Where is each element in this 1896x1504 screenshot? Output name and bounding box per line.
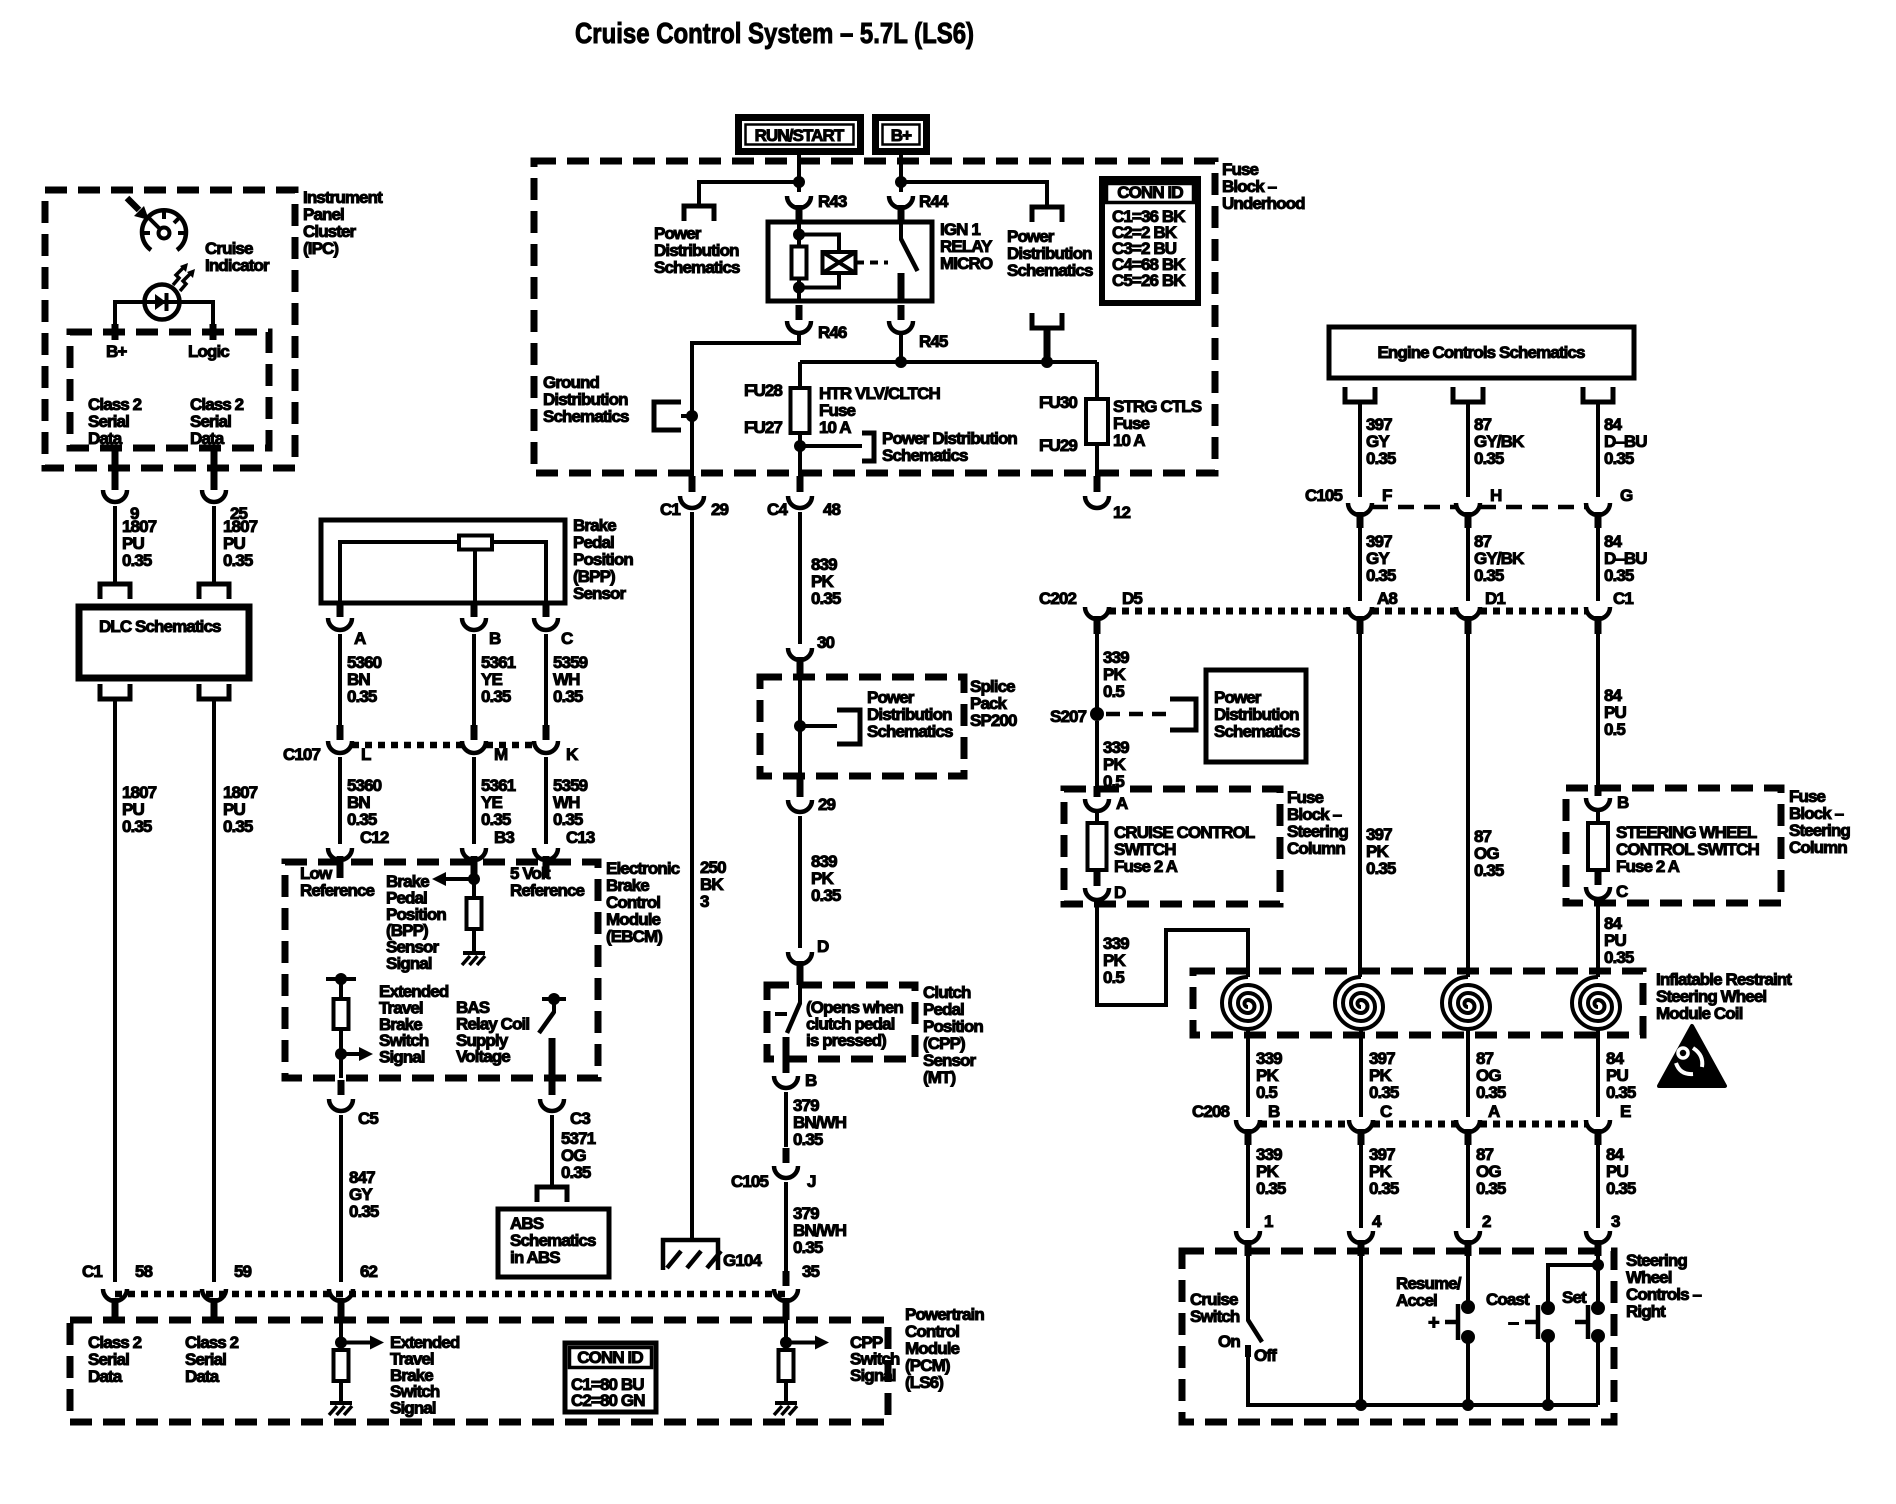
fuse FU30 STRG CTLS — [1086, 399, 1108, 444]
svg-text:0.35: 0.35 — [122, 817, 152, 836]
EBCM terminal BAS relay — [542, 997, 566, 1001]
ground G104 — [663, 1240, 721, 1270]
page ref power distribution right upper — [1032, 207, 1062, 222]
svg-text:C105: C105 — [731, 1172, 768, 1191]
connector BPP C — [534, 618, 573, 648]
wire label 84 DBU mid — [1604, 532, 1647, 585]
connector C1 29 — [680, 496, 704, 508]
BPP internal right — [492, 542, 546, 603]
wire label 397 PK c — [1369, 1145, 1399, 1198]
svg-text:Schematics: Schematics — [543, 407, 629, 426]
stub 35 into PCM — [783, 1298, 790, 1320]
stub power distribution feed — [1044, 328, 1051, 362]
junction extended travel signal — [335, 1048, 347, 1060]
junction extended travel pcm — [335, 1337, 347, 1349]
wire label 339 PK 05 mid — [1103, 738, 1129, 791]
svg-text:0.35: 0.35 — [811, 589, 841, 608]
wire pin1 to cruise switch — [1246, 1256, 1250, 1321]
BAS switch blade — [539, 1012, 554, 1033]
fuse block underhood box — [534, 161, 1215, 473]
stub A cruise fuse — [1094, 786, 1101, 797]
svg-text:35: 35 — [802, 1262, 820, 1281]
svg-text:2: 2 — [1482, 1212, 1491, 1231]
svg-text:Data: Data — [190, 429, 225, 448]
gauge pointer arrow — [127, 198, 149, 220]
connector CPP D — [788, 937, 829, 964]
wire 9 to DLC — [113, 506, 117, 584]
svg-text:0.35: 0.35 — [1366, 859, 1396, 878]
fuse block underhood label — [1222, 160, 1305, 213]
wire label 5359 WH upper — [553, 653, 588, 706]
connector line C105 row — [1372, 505, 1586, 510]
terminal from DLC left — [100, 684, 130, 699]
PCM resistor CPP — [779, 1350, 794, 1381]
relay switch upper stub — [899, 222, 903, 240]
stub BPP A — [337, 603, 344, 617]
svg-text:MICRO: MICRO — [940, 254, 993, 273]
gauge icon — [142, 210, 186, 250]
svg-text:is pressed): is pressed) — [806, 1031, 886, 1050]
wire BPP C to C107 — [544, 634, 548, 728]
svg-text:48: 48 — [823, 500, 841, 519]
PCM box — [70, 1320, 888, 1422]
svg-text:C5: C5 — [358, 1109, 378, 1128]
wire label 397 GY mid — [1366, 532, 1396, 585]
page ref power distribution fu27 — [862, 433, 874, 461]
PCM resistor extended travel — [334, 1350, 349, 1381]
svg-text:R43: R43 — [818, 192, 847, 211]
wire BAS stem — [552, 999, 556, 1013]
inflatable restraint coil box — [1193, 971, 1643, 1035]
svg-text:FU29: FU29 — [1039, 436, 1077, 455]
low reference label — [300, 864, 375, 900]
relay label IGN 1 RELAY MICRO — [940, 220, 993, 273]
stub C12 into EBCM — [337, 856, 344, 878]
wire label 839 PK upper — [811, 555, 841, 608]
connector C202 D1 — [1456, 589, 1505, 619]
stub G below — [1595, 512, 1602, 528]
svg-text:Signal: Signal — [850, 1366, 896, 1385]
wire pin3 down — [1596, 1256, 1600, 1302]
svg-text:D: D — [1114, 883, 1126, 902]
svg-text:Underhood: Underhood — [1222, 194, 1305, 213]
wire RUN/START to R43 — [797, 155, 801, 192]
svg-text:3: 3 — [700, 892, 709, 911]
stub 59 into PCM — [211, 1298, 218, 1320]
page ref ground distribution — [654, 402, 681, 430]
svg-text:0.35: 0.35 — [1604, 566, 1634, 585]
svg-text:Data: Data — [88, 429, 123, 448]
svg-text:59: 59 — [234, 1262, 252, 1281]
terminal engine controls H — [1453, 387, 1483, 402]
wire resume to bus — [1466, 1343, 1470, 1405]
svg-text:Right: Right — [1626, 1302, 1666, 1321]
svg-text:H: H — [1490, 486, 1502, 505]
connector 58 — [103, 1289, 127, 1301]
svg-text:0.35: 0.35 — [347, 687, 377, 706]
wire coil1 to C208 — [1246, 1029, 1250, 1117]
wire to PCM ground right — [784, 1381, 788, 1403]
CPP switch contact tick — [775, 1012, 787, 1016]
CPP wire in — [798, 985, 802, 1004]
svg-text:0.35: 0.35 — [1474, 861, 1504, 880]
connector C208 C — [1349, 1102, 1392, 1132]
svg-text:Reference: Reference — [300, 881, 375, 900]
coil 2 — [1335, 977, 1383, 1029]
connector steering fuse B — [1586, 793, 1629, 812]
ABS schematics label — [510, 1214, 596, 1267]
wire branch to power distribution ref left — [699, 182, 799, 204]
LED light arrows — [173, 263, 195, 291]
svg-text:D1: D1 — [1485, 589, 1505, 608]
junction FU27 branch — [794, 440, 806, 452]
cruise control switch fuse label — [1114, 823, 1255, 876]
stub D5 below — [1094, 616, 1101, 634]
connector C105 H — [1456, 486, 1502, 515]
svg-text:0.35: 0.35 — [1369, 1083, 1399, 1102]
relay node bottom — [793, 282, 805, 294]
wire 839 PK upper — [798, 512, 802, 644]
svg-text:F: F — [1382, 486, 1392, 505]
wire coast to bus — [1546, 1342, 1550, 1405]
svg-text:A: A — [1116, 794, 1128, 813]
junction bus coast — [1542, 1399, 1554, 1411]
wire L to C12 — [338, 757, 342, 844]
svg-text:C2=80 GN: C2=80 GN — [571, 1391, 645, 1410]
wire B to fuse — [1596, 812, 1600, 824]
terminal engine controls F — [1345, 387, 1375, 402]
wire B to pin1 — [1246, 1145, 1250, 1228]
relay coil left wire lower — [797, 278, 801, 301]
svg-text:C105: C105 — [1305, 486, 1342, 505]
stub B+ pin — [112, 324, 119, 340]
connector 25 — [202, 490, 248, 523]
svg-text:Switch: Switch — [1190, 1307, 1240, 1326]
svg-text:G104: G104 — [723, 1251, 762, 1270]
stub A8 below — [1357, 616, 1364, 634]
svg-text:0.35: 0.35 — [793, 1238, 823, 1257]
5 volt reference label — [510, 864, 585, 900]
wire A to pin2 — [1466, 1145, 1470, 1228]
svg-text:C107: C107 — [283, 745, 320, 764]
relay switch lower contact — [898, 273, 905, 301]
wire pin4 to bus — [1359, 1256, 1363, 1405]
wire 62 inside PCM — [339, 1320, 343, 1350]
BPP potentiometer — [459, 536, 492, 550]
wire coil2 to C208 — [1359, 1029, 1363, 1117]
junction ground distribution ref — [686, 410, 698, 422]
EBCM internal ground — [462, 953, 485, 965]
arrow BPP sensor signal — [432, 872, 474, 886]
EBCM box — [285, 862, 598, 1078]
wire FU27 down — [798, 433, 802, 492]
svg-text:Schematics: Schematics — [1214, 722, 1300, 741]
svg-text:B3: B3 — [494, 828, 514, 847]
connector C208 E — [1586, 1102, 1631, 1132]
splice pack label — [970, 677, 1017, 730]
connector 62 — [329, 1289, 353, 1301]
stub C208 B below — [1245, 1129, 1252, 1145]
wire to FU30 fuse — [1095, 362, 1099, 399]
wire extended travel lower — [339, 1029, 343, 1078]
svg-text:Logic: Logic — [188, 342, 229, 361]
instrument panel cluster label — [303, 188, 383, 258]
wire coil4 to C208 — [1596, 1029, 1600, 1117]
stub C3 — [549, 1080, 556, 1095]
relay coil element — [823, 252, 856, 273]
connector C105 G — [1586, 486, 1633, 515]
wire BPP A to C107 — [338, 634, 342, 728]
svg-text:FU28: FU28 — [744, 381, 782, 400]
svg-text:0.35: 0.35 — [811, 886, 841, 905]
wire through splice — [798, 677, 802, 776]
svg-text:C208: C208 — [1192, 1102, 1229, 1121]
extended travel label pcm — [390, 1333, 460, 1418]
fuse block steering column cruise label — [1287, 788, 1348, 858]
junction pin3 jog — [1592, 1259, 1604, 1271]
svg-text:B: B — [489, 629, 501, 648]
connector pin 4 — [1349, 1212, 1382, 1243]
svg-text:62: 62 — [360, 1262, 378, 1281]
svg-text:J: J — [807, 1172, 816, 1191]
stub pin1 below — [1245, 1240, 1252, 1256]
svg-text:On: On — [1218, 1332, 1240, 1351]
svg-text:CONN ID: CONN ID — [577, 1348, 643, 1367]
connector B3 — [462, 828, 514, 860]
stub B3 into EBCM — [471, 856, 478, 878]
junction RUN/START branch — [793, 176, 805, 188]
svg-text:D: D — [817, 937, 829, 956]
wire 25 to DLC — [212, 506, 216, 584]
svg-text:0.35: 0.35 — [1366, 449, 1396, 468]
stub Logic pin — [210, 324, 217, 340]
arrow CPP switch signal — [786, 1336, 829, 1350]
svg-text:G: G — [1620, 486, 1633, 505]
relay coil left wire — [797, 222, 801, 247]
connector pin 3 — [1586, 1212, 1620, 1243]
svg-text:FU30: FU30 — [1039, 393, 1077, 412]
fuse label STRG CTLS — [1113, 397, 1202, 450]
steering wheel control switch fuse label — [1616, 823, 1760, 876]
page ref power distribution right lower — [1032, 313, 1062, 328]
relay resistor — [792, 247, 807, 279]
wire C3 to ABS — [550, 1115, 554, 1186]
svg-text:DLC Schematics: DLC Schematics — [99, 617, 221, 636]
dashed link S207 — [1106, 712, 1168, 717]
CPP switch signal label — [850, 1333, 900, 1385]
wire label 339 PK 05 upper — [1103, 648, 1129, 701]
wire 379 BNWH lower — [784, 1182, 788, 1282]
stub 29 from splice — [797, 777, 804, 797]
connector C4 48 — [788, 496, 812, 508]
arrow extended travel pcm — [341, 1336, 384, 1350]
svg-text:Column: Column — [1287, 839, 1345, 858]
connector C107 L — [328, 725, 371, 764]
svg-text:(MT): (MT) — [923, 1068, 956, 1087]
coil 3 — [1442, 977, 1490, 1029]
wire FU27 to power distribution ref — [800, 444, 862, 448]
extended travel label ebcm — [379, 982, 449, 1067]
wire label 847 GY — [349, 1168, 379, 1221]
page ref power distribution splice — [837, 710, 860, 744]
wire label 84 DBU upper — [1604, 415, 1647, 468]
svg-text:SP200: SP200 — [970, 711, 1017, 730]
svg-text:58: 58 — [135, 1262, 153, 1281]
svg-text:(LS6): (LS6) — [905, 1373, 943, 1392]
stub C1 below — [1595, 616, 1602, 634]
splice S207 — [1090, 707, 1104, 721]
connector R43 — [787, 192, 847, 220]
fuse FU28 HTR VLV/CLTCH — [791, 388, 810, 433]
connector cruise fuse A — [1085, 794, 1128, 813]
wire C down to coil — [1596, 903, 1600, 977]
connector pin 1 — [1236, 1212, 1273, 1243]
wire label 1807 PU left upper — [122, 517, 157, 570]
power distribution schematics box s207 — [1206, 670, 1306, 762]
wire label 839 PK lower — [811, 852, 841, 905]
svg-text:0.5: 0.5 — [1604, 720, 1625, 739]
svg-text:B+: B+ — [891, 126, 912, 145]
wire label 87 GYBK upper — [1474, 415, 1525, 468]
wire label 84 PU b — [1606, 1049, 1636, 1102]
svg-text:Schematics: Schematics — [1007, 261, 1093, 280]
connector C202 D5 — [1085, 589, 1142, 619]
connector C13 — [534, 828, 595, 860]
junction CPP switch signal — [780, 1337, 792, 1349]
svg-text:0.35: 0.35 — [223, 817, 253, 836]
wire F mid — [1358, 528, 1362, 601]
junction bus resume — [1462, 1399, 1474, 1411]
power source box B+ — [876, 118, 927, 152]
wire label 84 PU 035 a — [1604, 914, 1634, 967]
stub 62 into PCM — [338, 1298, 345, 1320]
wire label 87 OG c — [1476, 1145, 1506, 1198]
svg-text:0.5: 0.5 — [1256, 1083, 1277, 1102]
PCM ground left — [329, 1403, 352, 1415]
svg-text:4: 4 — [1372, 1212, 1382, 1231]
wire label 87 GYBK mid — [1474, 532, 1525, 585]
wire 250 BK to G104 — [690, 512, 694, 1240]
wire E to pin3 — [1596, 1145, 1600, 1228]
stub C105 J — [783, 1148, 790, 1163]
svg-text:0.35: 0.35 — [1476, 1083, 1506, 1102]
svg-text:0.35: 0.35 — [1256, 1179, 1286, 1198]
connector C107 K — [534, 725, 579, 764]
connector C105 F — [1348, 486, 1392, 515]
wire label 5359 WH lower — [553, 776, 588, 829]
arrow extended travel signal — [341, 1047, 373, 1061]
resume accel label — [1396, 1274, 1462, 1310]
svg-text:0.35: 0.35 — [481, 687, 511, 706]
fuse steering wheel control switch — [1588, 823, 1608, 870]
relay actuator dashed link — [856, 261, 888, 265]
svg-text:0.35: 0.35 — [223, 551, 253, 570]
class 2 serial data label pcm right — [185, 1333, 239, 1386]
svg-text:Reference: Reference — [510, 881, 585, 900]
svg-text:in ABS: in ABS — [510, 1248, 560, 1267]
wire 59 long — [212, 699, 216, 1282]
wire to FU28 fuse — [798, 362, 802, 388]
stub D1 below — [1465, 616, 1472, 634]
wire set to bus — [1596, 1342, 1600, 1405]
connector line C107 — [352, 742, 534, 749]
fuse cruise control switch — [1088, 823, 1107, 870]
fuse label HTR VLV/CLTCH — [819, 384, 940, 437]
wire label 5371 OG — [561, 1129, 596, 1182]
cruise switch lower contact — [1245, 1345, 1251, 1357]
BPP sensor label — [573, 516, 633, 603]
power distribution schematics label s207 — [1214, 688, 1300, 741]
svg-text:Sensor: Sensor — [573, 584, 627, 603]
connector 59 — [202, 1289, 226, 1301]
BAS switch lower contact — [549, 1038, 556, 1078]
svg-text:K: K — [566, 745, 579, 764]
svg-text:0.35: 0.35 — [1476, 1179, 1506, 1198]
power distribution schematics label splice — [867, 688, 953, 741]
stub F below — [1357, 512, 1364, 528]
cruise indicator label — [205, 239, 270, 275]
connector C208 B — [1236, 1102, 1280, 1132]
connector C208 A — [1456, 1102, 1500, 1132]
power source box RUN/START — [739, 118, 861, 152]
connector BPP B — [462, 618, 501, 648]
stub H below — [1465, 512, 1472, 528]
wire C to pin4 — [1359, 1145, 1363, 1228]
svg-text:12: 12 — [1113, 503, 1131, 522]
stub 30 into splice — [797, 657, 804, 677]
stub 58 into PCM — [112, 1298, 119, 1320]
svg-text:0.35: 0.35 — [553, 687, 583, 706]
stub IPC pin 9 — [112, 446, 119, 490]
junction splice SP200 — [794, 720, 806, 732]
stub 35 above — [783, 1271, 790, 1286]
svg-text:Cruise Control System – 5.7L (: Cruise Control System – 5.7L (LS6) — [575, 18, 974, 50]
svg-text:1: 1 — [1264, 1212, 1273, 1231]
junction B+ branch — [895, 176, 907, 188]
wire BPP resistor to ground — [472, 929, 476, 953]
wire coil3 to C208 — [1466, 1029, 1470, 1117]
svg-text:Off: Off — [1254, 1346, 1277, 1365]
fuse block steering column cruise box — [1064, 789, 1280, 904]
stub B right fuse — [1595, 785, 1602, 796]
svg-text:(EBCM): (EBCM) — [606, 927, 662, 946]
svg-text:0.35: 0.35 — [1369, 1179, 1399, 1198]
stub C5 — [338, 1080, 345, 1095]
svg-text:C13: C13 — [566, 828, 595, 847]
splice pack box — [760, 677, 964, 776]
connector C5 — [329, 1099, 378, 1128]
wire label 339 PK c — [1256, 1145, 1286, 1198]
relay box IGN 1 — [768, 222, 932, 301]
coil 1 — [1222, 977, 1270, 1029]
svg-text:Schematics: Schematics — [867, 722, 953, 741]
wire splice to ref — [800, 724, 837, 728]
connector 35 — [774, 1289, 798, 1301]
EBCM resistor BPP — [467, 898, 482, 929]
relay coil branch top — [799, 235, 839, 254]
wire label 339 PK b — [1256, 1049, 1282, 1102]
svg-text:Module Coil: Module Coil — [1656, 1004, 1743, 1023]
relay coil branch bottom — [799, 273, 839, 288]
engine controls schematics box — [1329, 327, 1634, 378]
svg-text:A: A — [354, 629, 366, 648]
stub pin4 below — [1358, 1240, 1365, 1256]
EBCM label — [606, 859, 680, 946]
relay switch blade — [901, 239, 918, 271]
svg-text:Indicator: Indicator — [205, 256, 270, 275]
junction bus pin4 — [1355, 1399, 1367, 1411]
wire BPP signal down — [472, 879, 476, 899]
